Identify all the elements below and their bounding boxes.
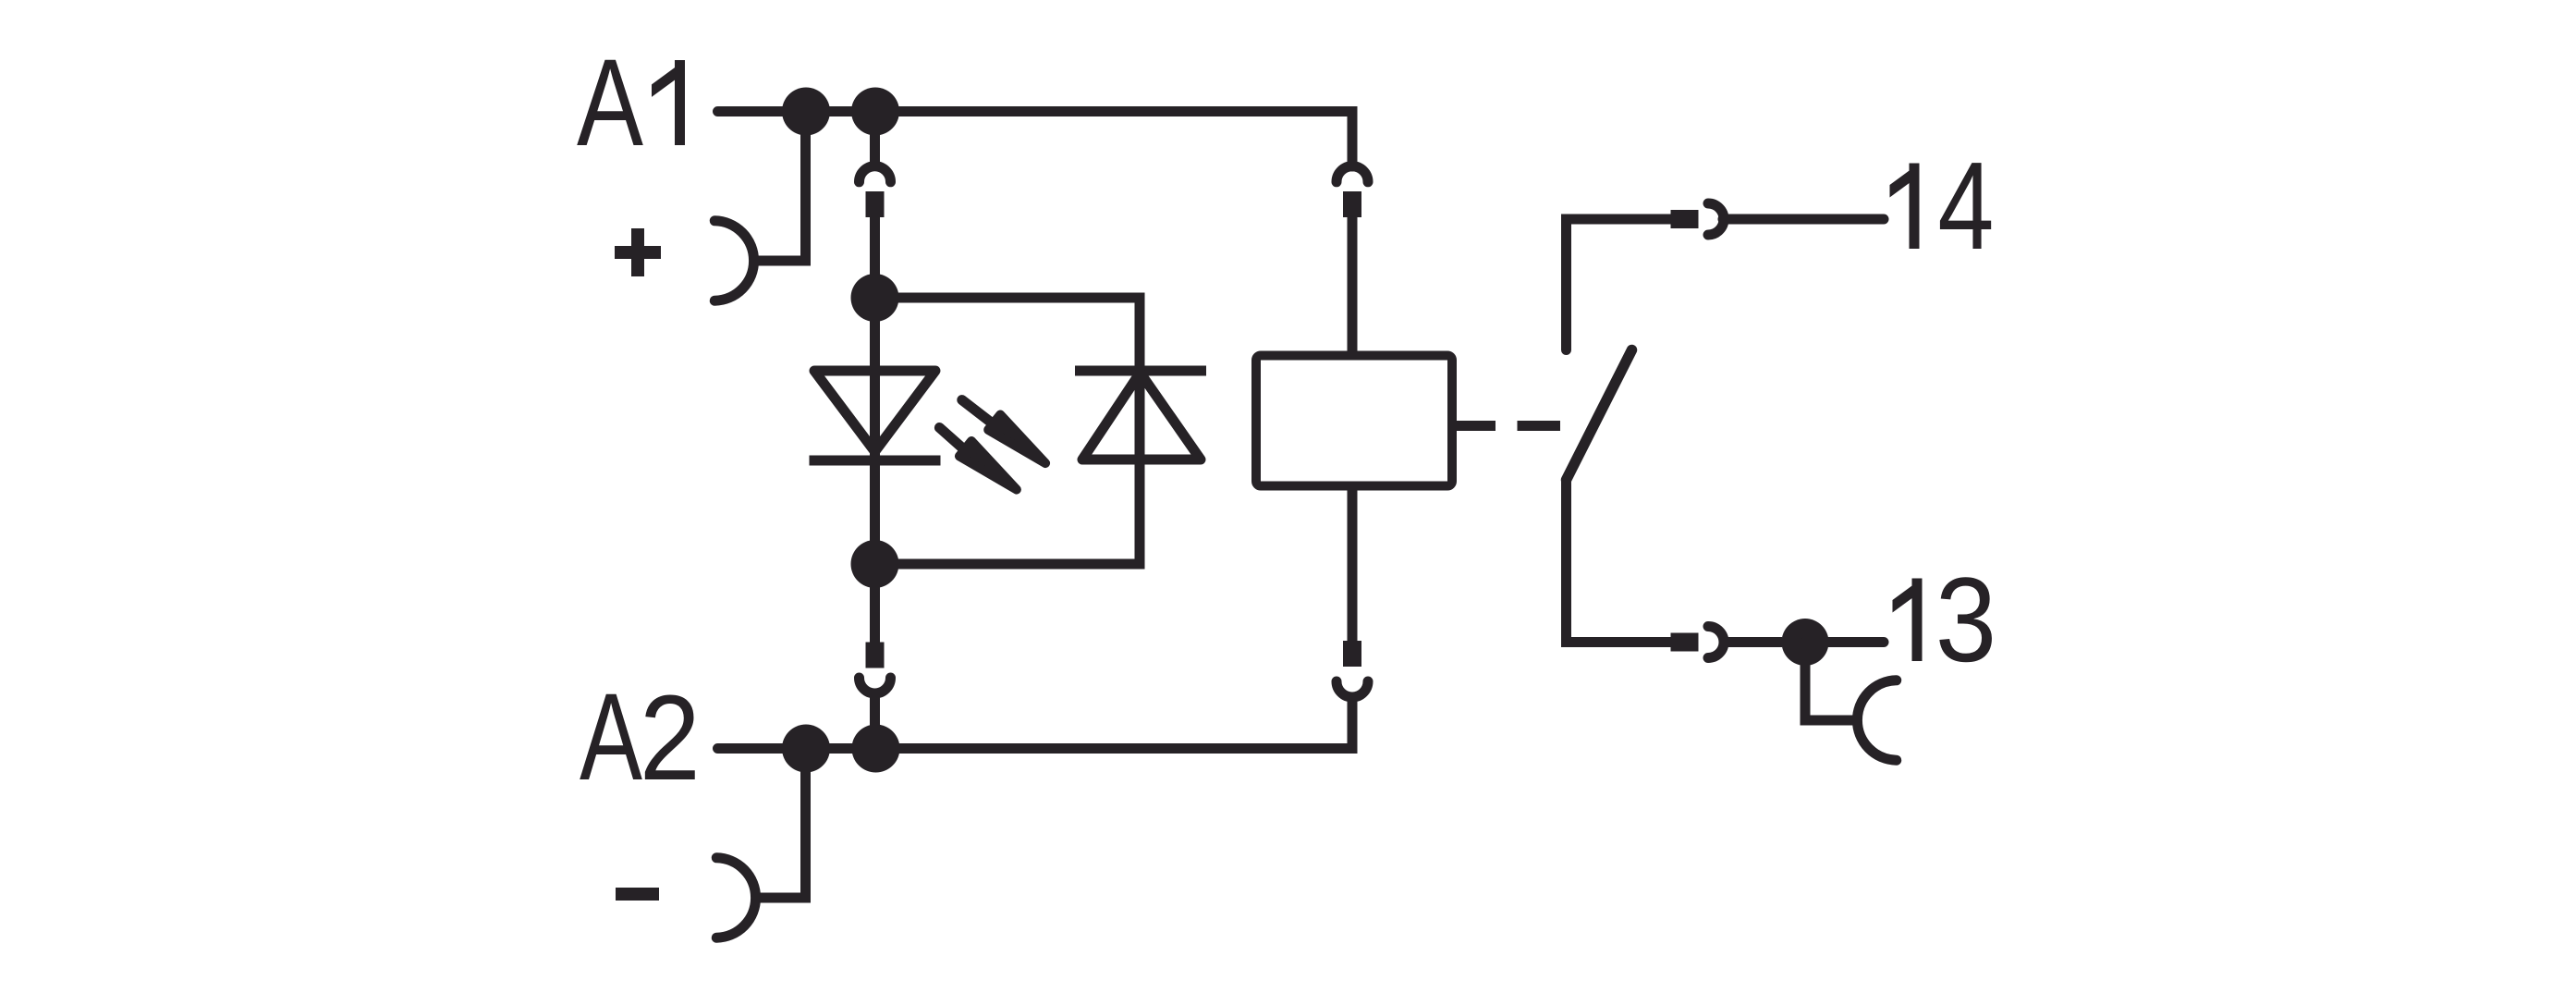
disconnect male pin rect LED branch bottom (866, 643, 885, 668)
wire stub arc to A2 dot (870, 693, 880, 749)
plug male pin rect 13 (1671, 633, 1699, 652)
terminal label 14 (1890, 164, 1920, 250)
freewheeling diode D2 triangle (pointing up) (1082, 373, 1201, 460)
disconnect female arc (opening down) LED branch top (860, 166, 891, 182)
svg-text:4: 4 (1937, 136, 1994, 276)
wire from pin down to node dot3 (870, 217, 880, 298)
disconnect male pin rect relay top (1343, 191, 1361, 217)
wire loop top: dot3 to right vertical down to D2 (875, 298, 1141, 371)
junction dot4 (bottom of LED loop) (851, 540, 899, 588)
wire stub from dot A1-b down to disconnect arc (870, 112, 880, 167)
minus sign (616, 888, 659, 901)
junction dot3 (top of LED loop) (851, 274, 899, 322)
wire relay coil bottom down to male pin (1348, 485, 1358, 642)
wire from dot4 down to male pin (870, 564, 880, 643)
svg-text:2: 2 (640, 669, 701, 805)
LED light arrow 2 (939, 428, 1017, 490)
plug male pin rect 14 (1671, 210, 1699, 228)
clamp terminal at minus (716, 858, 755, 938)
wire switch top contact to 14 plug (1567, 219, 1673, 350)
switch bottom lead down and right to 13 plug (1567, 478, 1673, 643)
plug female arc 14 (opening left) (1708, 203, 1724, 235)
wire A2 horizontal then up to relay branch disconnect (718, 697, 1353, 749)
clamp terminal 13 (opening right) (1857, 680, 1896, 760)
svg-text:A: A (580, 668, 642, 806)
clamp terminal at plus (714, 221, 753, 300)
wire 13 arc to junction dot (1723, 637, 1782, 647)
wire D2 vertical through triangle (1135, 371, 1145, 460)
svg-text:3: 3 (1935, 552, 1996, 687)
LED D1 cathode bar (810, 456, 941, 466)
wire pin to relay coil top (1348, 217, 1358, 355)
disconnect male pin rect LED branch top (866, 191, 885, 217)
junction dot A1-b (851, 88, 899, 136)
switch blade (NO contact) (1567, 350, 1632, 481)
wire LED branch vertical through LED (870, 298, 880, 564)
wire A1 horizontal then down to relay branch disconnect (718, 112, 1353, 167)
terminal label 13 (1893, 579, 1923, 662)
junction dot 13 (1782, 619, 1829, 666)
disconnect male pin rect relay bottom (1343, 641, 1361, 667)
wire dot 13 down to clamp (1805, 643, 1858, 721)
LED light arrow 1 (962, 400, 1045, 463)
LED D1 triangle (pointing down) (814, 371, 935, 452)
dashed actuation link from coil to switch (1452, 421, 1560, 431)
junction dot A1-a (782, 88, 830, 136)
disconnect female arc relay top (opening down) (1337, 166, 1368, 182)
wire from dot A2-a down to minus clamp (755, 749, 806, 899)
plus sign (615, 228, 661, 276)
disconnect female arc (opening up) LED branch bottom (860, 678, 891, 693)
wire 14 arc to label (1723, 214, 1884, 225)
junction dot A2-a (782, 725, 830, 773)
junction dot A2-b (852, 725, 900, 773)
plug female arc 13 (opening left) (1708, 627, 1724, 658)
disconnect female arc relay bottom (opening up) (1337, 681, 1368, 697)
wire loop bottom: dot4 right then up to D2 base (875, 460, 1141, 564)
svg-text:A: A (577, 34, 643, 172)
wire from dot A1-a down to plus clamp (753, 112, 806, 262)
wire dot to 13 label (1805, 637, 1884, 647)
relay coil K1 (1256, 356, 1452, 486)
freewheeling diode D2 cathode bar (1075, 366, 1206, 376)
